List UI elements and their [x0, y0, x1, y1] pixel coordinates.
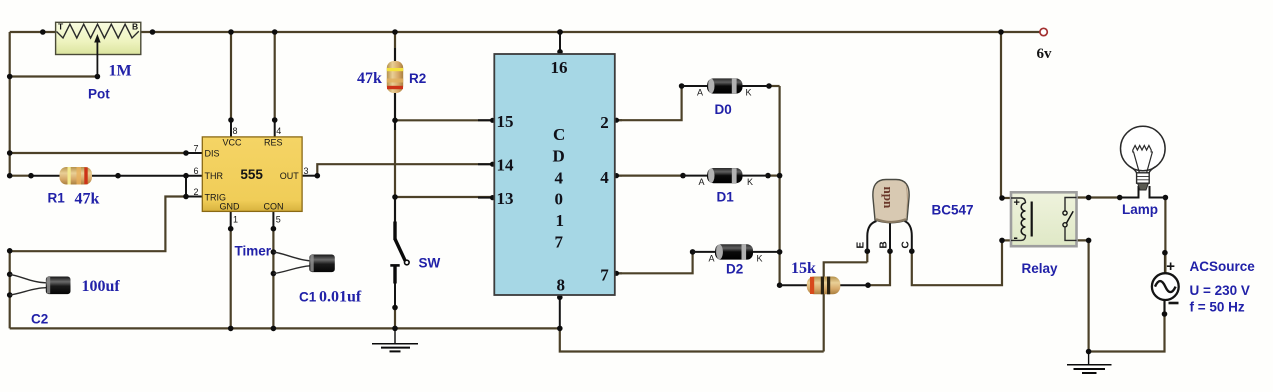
node pin13 stub [490, 195, 495, 200]
node d2 anode [690, 249, 696, 255]
node gnd rail [228, 326, 234, 332]
svg-text:13: 13 [497, 189, 514, 208]
node vcc rail [228, 29, 234, 35]
ground below relay [1067, 352, 1112, 373]
svg-text:RES: RES [264, 138, 283, 148]
wire left vertical lower to bottom rail [9, 251, 11, 328]
wire 15k to base [868, 251, 890, 285]
svg-text:B: B [132, 22, 138, 32]
potentiometer Pot 1M [56, 22, 141, 77]
node pin2 stub [614, 118, 619, 123]
svg-text:0: 0 [555, 190, 564, 209]
capacitor C2 100uf [10, 274, 71, 295]
svg-text:7: 7 [555, 233, 564, 252]
svg-text:8: 8 [557, 276, 566, 295]
node con rail [271, 326, 277, 332]
node r2 pin13 junction [392, 194, 398, 200]
node res stub [272, 117, 278, 123]
svg-text:A: A [697, 88, 703, 98]
node collector [909, 248, 915, 254]
svg-text:4: 4 [555, 169, 564, 188]
svg-text:6: 6 [194, 166, 199, 176]
node acsource minus [1162, 311, 1168, 317]
node base [887, 248, 893, 254]
svg-text:C: C [901, 241, 912, 248]
node c1 bottom lead [271, 271, 277, 277]
wire emitter down-leg [824, 262, 868, 351]
node d0 anode [679, 83, 685, 89]
node relay ground junction [1086, 349, 1092, 355]
wire collector to relay coil minus [912, 240, 1002, 285]
node d1 anode [680, 173, 686, 179]
node out pin [315, 173, 321, 179]
node gnd stub [228, 226, 234, 232]
svg-text:47k: 47k [357, 70, 382, 87]
svg-text:8: 8 [233, 126, 238, 136]
svg-text:OUT: OUT [280, 171, 300, 181]
wire DIS pin7 to left rail [10, 152, 186, 154]
svg-text:GND: GND [220, 202, 241, 212]
svg-text:+: + [1014, 197, 1020, 209]
wire top 6v rail right part [141, 31, 1040, 33]
svg-text:2: 2 [194, 187, 199, 197]
wire left vertical upper [9, 32, 11, 176]
node pin4 stub [614, 173, 619, 178]
svg-text:Pot: Pot [88, 87, 110, 102]
svg-text:CON: CON [264, 202, 284, 212]
node pin7 stub [614, 271, 619, 276]
node con stub [271, 226, 277, 232]
svg-text:K: K [746, 88, 752, 98]
svg-text:6v: 6v [1037, 46, 1053, 62]
node vcc stub [228, 117, 234, 123]
resistor R2 47k vertical [387, 61, 403, 93]
wire pin8 jog to emitter rail [560, 328, 824, 351]
svg-text:47k: 47k [75, 191, 100, 208]
svg-text:K: K [757, 254, 763, 264]
node lamp left [1117, 195, 1123, 201]
wire relay contact to lamp [1077, 196, 1120, 198]
wire pot wiper to left rail [10, 75, 98, 77]
svg-text:15k: 15k [791, 260, 816, 277]
node dots [7, 29, 1168, 354]
wire R2 junction to CD4017 pin13 [395, 196, 493, 198]
node c2 bottom lead [7, 292, 13, 298]
wire CD4017 pin2 to D0 [615, 119, 622, 121]
svg-text:D1: D1 [717, 190, 735, 205]
capacitor C1 0.01uf [273, 252, 334, 274]
node emitter [865, 248, 871, 254]
wire 6v rail to relay coil plus [1000, 32, 1002, 198]
svg-text:D0: D0 [715, 102, 732, 117]
node d1 cathode [765, 173, 771, 179]
node pot T rail [40, 29, 46, 35]
node wiper left [7, 74, 13, 80]
node pin15 stub [490, 118, 495, 123]
svg-text:4: 4 [276, 126, 281, 136]
node wiper [95, 74, 101, 80]
lamp L1 [1120, 126, 1166, 197]
wire 555 GND pin1 down [230, 211, 232, 228]
svg-text:15: 15 [497, 112, 514, 131]
svg-text:5: 5 [276, 215, 281, 225]
node res rail [272, 29, 278, 35]
node acsource plus [1162, 250, 1168, 256]
node relay no top [1086, 195, 1092, 201]
node r2 pin15 junction [392, 118, 398, 124]
wire CD4017 pin16 to rail [559, 32, 561, 54]
svg-text:100uf: 100uf [82, 278, 121, 295]
wire lamp to acsource [1164, 198, 1166, 273]
wire THR / R1 branch [10, 175, 31, 177]
resistor R1 47k [60, 167, 93, 185]
wire 555 VCC pin8 to rail [230, 120, 232, 137]
svg-text:C2: C2 [31, 312, 48, 327]
svg-text:-: - [1014, 230, 1018, 245]
wire 555 RES pin4 to rail [274, 120, 276, 137]
wire above switch [394, 198, 396, 222]
svg-text:1M: 1M [109, 63, 132, 80]
node pin16 rail [557, 29, 563, 35]
node pin8 top [557, 295, 563, 301]
node trig pin [183, 194, 189, 200]
wire TRIG stub [186, 196, 202, 198]
node lamp right [1163, 195, 1169, 201]
wire CD4017 pin8 to rail [559, 295, 561, 328]
node dis left [7, 150, 13, 156]
node relay supply rail [998, 29, 1004, 35]
wire top 6v rail left part [10, 31, 56, 33]
svg-text:DIS: DIS [205, 149, 220, 159]
wire R2 junction to CD4017 pin15 [395, 119, 493, 121]
wire R2 vertical net [394, 32, 396, 222]
svg-text:R2: R2 [409, 71, 426, 86]
node pin16 top [557, 29, 563, 35]
svg-text:14: 14 [497, 156, 515, 175]
svg-text:B: B [879, 241, 890, 248]
svg-text:1: 1 [233, 215, 238, 225]
op-amp U1 555 timer body [202, 137, 302, 212]
relay K1 [1011, 192, 1077, 246]
node c1 top lead [271, 249, 277, 255]
node r1 left [28, 173, 34, 179]
node bus 15k [777, 282, 783, 288]
svg-text:555: 555 [240, 167, 263, 182]
svg-text:D2: D2 [726, 262, 743, 277]
wire CD4017 pin7 to D2 [615, 272, 622, 274]
switch SW [390, 222, 409, 284]
node pin8 rail [557, 326, 563, 332]
svg-text:C: C [553, 125, 565, 144]
diode D2 [693, 244, 780, 263]
wire THR stub [186, 175, 202, 177]
node sw rail [392, 326, 398, 332]
svg-text:f = 50 Hz: f = 50 Hz [1190, 300, 1245, 315]
svg-text:7: 7 [194, 144, 199, 154]
svg-text:Relay: Relay [1022, 261, 1059, 276]
wire bottom ground rail [10, 327, 560, 329]
svg-text:0.01uf: 0.01uf [319, 289, 362, 306]
node d2 bus [777, 249, 783, 255]
svg-text:K: K [747, 177, 753, 187]
svg-text:2: 2 [600, 113, 609, 132]
svg-text:E: E [856, 242, 867, 249]
svg-text:Lamp: Lamp [1122, 202, 1158, 217]
node relay minus [999, 238, 1005, 244]
svg-text:BC547: BC547 [932, 203, 974, 218]
node d0 cathode [766, 83, 772, 89]
svg-text:D: D [553, 147, 565, 166]
wire relay ground to acsource [1089, 301, 1165, 352]
svg-text:3: 3 [304, 166, 309, 176]
svg-text:npn: npn [881, 187, 896, 209]
svg-text:16: 16 [551, 58, 568, 77]
wire relay pin stubs left [1001, 197, 1011, 199]
node thr pin [183, 173, 189, 179]
node thr left [7, 173, 13, 179]
wire D1 cathode to bus [768, 175, 780, 177]
wire 555 CON pin5 down [272, 211, 274, 228]
node trig corner left [7, 248, 13, 254]
svg-text:1: 1 [556, 211, 565, 230]
resistor R3 15k [780, 277, 868, 295]
svg-text:ACSource: ACSource [1190, 259, 1256, 274]
transistor Q1 BC547 [867, 180, 912, 252]
wire below switch to rail [394, 284, 396, 308]
svg-text:4: 4 [600, 168, 609, 187]
svg-text:7: 7 [600, 266, 609, 285]
svg-text:U = 230 V: U = 230 V [1190, 283, 1250, 298]
node 15k right [865, 282, 871, 288]
wire 555 OUT to CD4017 pin14 [302, 175, 317, 177]
diode D0 [682, 78, 769, 97]
wire relay contact bottom to ground [1077, 240, 1089, 351]
svg-text:A: A [709, 254, 715, 264]
wire TRIG to left lower vertical [10, 197, 186, 252]
node r2 rail [392, 29, 398, 35]
node relay plus [999, 195, 1005, 201]
svg-text:SW: SW [419, 256, 441, 271]
svg-text:R1: R1 [48, 191, 66, 206]
ground below SW [372, 330, 418, 351]
terminal 6v [1037, 28, 1053, 62]
node r1 right [115, 173, 121, 179]
svg-text:Timer: Timer [235, 244, 272, 259]
node relay no bottom [1086, 238, 1092, 244]
node sw bottom [392, 305, 398, 311]
wire D0 cathode to bus [769, 85, 780, 87]
diode D1 [683, 168, 768, 187]
svg-text:T: T [58, 22, 64, 32]
node pin14 stub [490, 162, 495, 167]
wire DIS stub [186, 152, 202, 154]
IC U2 CD4017 body [494, 54, 615, 295]
node d1 bus [777, 173, 783, 179]
svg-text:C1: C1 [299, 290, 317, 305]
node pot B rail [150, 29, 156, 35]
svg-text:A: A [699, 177, 705, 187]
svg-text:THR: THR [205, 171, 224, 181]
node c2 top lead [7, 272, 13, 278]
wire CD4017 pin4 to D1 [615, 175, 622, 177]
source ACSource [1152, 258, 1179, 303]
wire THR-TRIG link [185, 176, 187, 197]
node pin16 bottom [557, 49, 563, 55]
wire emitter horizontal [866, 251, 868, 262]
wire diode bus vertical [778, 86, 780, 285]
svg-text:+: + [1166, 258, 1175, 275]
svg-text:VCC: VCC [223, 138, 243, 148]
node dis pin [183, 150, 189, 156]
